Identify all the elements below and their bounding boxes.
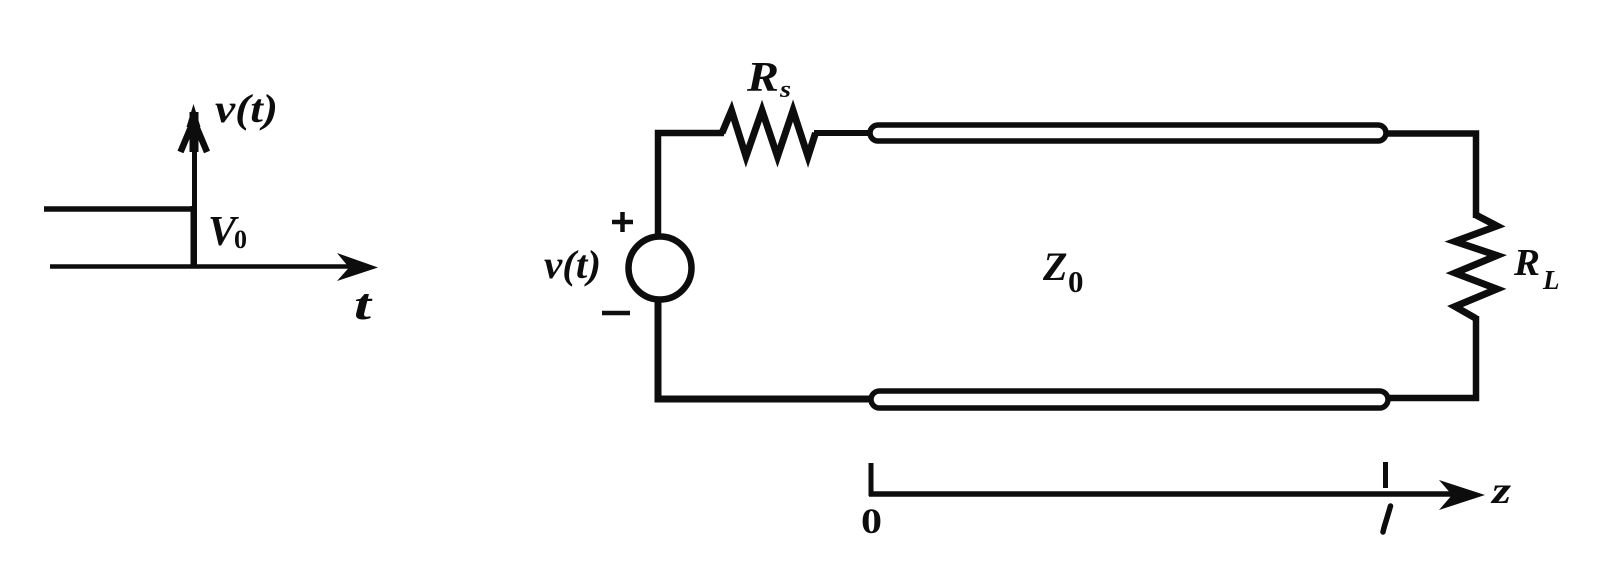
wire: voltage source positive terminal up and across to R_s [658, 133, 724, 237]
wire: R_L to transmission line bottom-right [1389, 316, 1476, 398]
wire: transmission line top-right to R_L [1386, 134, 1476, 219]
svg-text:t: t [354, 280, 373, 329]
svg-text:0: 0 [861, 501, 882, 541]
value label R_L [1513, 242, 1560, 295]
svg-text:L: L [1542, 265, 1560, 295]
graph v-axis arrow [181, 104, 208, 266]
z-axis label l [1383, 506, 1391, 532]
svg-text:0: 0 [1068, 264, 1084, 299]
voltage source v(t) [629, 237, 692, 300]
transmission line top conductor [870, 125, 1386, 141]
plus polarity mark [612, 212, 633, 232]
label Z_0 [1042, 244, 1084, 299]
resistor R_s [722, 111, 816, 157]
svg-text:R: R [746, 55, 779, 101]
minus polarity mark [602, 311, 630, 316]
resistor R_L [1455, 215, 1497, 319]
z-axis tick at z=0 [869, 463, 874, 496]
z-axis tick at z=l [1383, 462, 1388, 488]
svg-text:v(t): v(t) [544, 242, 601, 287]
step waveform V0 level [44, 206, 196, 212]
svg-text:0: 0 [234, 225, 247, 254]
wire: transmission line bottom-left to source negative terminal [658, 300, 872, 400]
svg-text:s: s [779, 77, 791, 103]
svg-text:R: R [1513, 242, 1540, 284]
transmission line bottom conductor [871, 391, 1388, 408]
svg-text:z: z [1489, 470, 1511, 512]
wire: R_s to transmission line top-left [814, 130, 871, 136]
step waveform drop at t=0 [191, 206, 197, 266]
z-axis arrow [869, 480, 1485, 510]
svg-text:v(t): v(t) [215, 86, 278, 131]
value label R_s [746, 55, 791, 103]
svg-text:Z: Z [1042, 244, 1067, 289]
graph t-axis arrow [50, 253, 378, 281]
label V_0 [208, 209, 247, 255]
